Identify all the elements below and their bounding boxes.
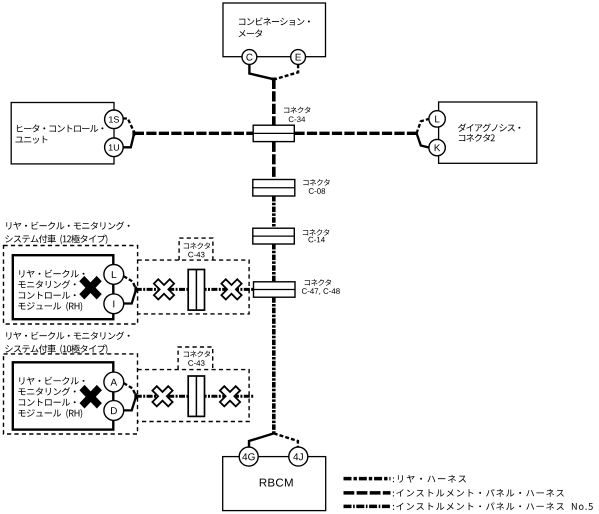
10-pole dashed enclosure xyxy=(4,354,138,434)
wire trunk C-47 to RBCM junction (rear harness) xyxy=(272,297,276,433)
12-pole system note line 1 xyxy=(6,221,129,229)
connector C-47 C-48 designator xyxy=(302,288,340,295)
combination meter box xyxy=(223,3,326,57)
module (12-pole) box xyxy=(13,255,114,319)
wire diagnosis pin K lead xyxy=(417,133,429,147)
node heater junction xyxy=(132,131,135,137)
twist mark upper left xyxy=(154,279,174,299)
wire RBCM pin 4G lead xyxy=(249,433,274,447)
node module1 junction xyxy=(134,287,137,293)
legend instrument panel harness sample xyxy=(344,491,391,495)
heater control unit box xyxy=(11,103,114,164)
legend instrument panel harness label xyxy=(393,489,564,497)
connector C-43 lower xyxy=(188,376,204,416)
connector C-43 lower label xyxy=(184,351,210,358)
wire heater pin 1U lead xyxy=(123,135,134,148)
wire heater pin 1S lead (dashed) xyxy=(123,119,134,132)
wire module pin A lead (dashed) xyxy=(124,383,136,395)
pin E (meter) xyxy=(291,50,306,65)
wire meter pin C lead xyxy=(249,64,271,78)
RBCM label xyxy=(260,478,293,486)
wire trunk junction to C-34 (instrument panel harness) xyxy=(272,79,276,125)
10-pole system note line 2 xyxy=(5,344,107,354)
cross mark in module (12-pole) xyxy=(79,276,101,300)
pin D (module 10-pole) xyxy=(104,401,124,421)
pin 1U (heater) xyxy=(105,138,124,157)
legend instrument panel harness No.5 label xyxy=(393,502,593,510)
cross mark in module (10-pole) xyxy=(79,385,101,409)
diagnosis connector 2 box xyxy=(439,102,537,163)
wire module (12-pole) to C-47 (rear harness) xyxy=(136,288,254,291)
connector C-43 lower designator xyxy=(188,360,204,366)
connector C-43 upper label box xyxy=(179,238,213,260)
pin C (meter) xyxy=(242,50,257,65)
legend rear harness sample xyxy=(344,477,391,481)
connector C-34 designator xyxy=(289,116,305,122)
legend instrument panel harness No.5 sample xyxy=(344,505,391,509)
pin L (diagnosis) xyxy=(429,111,445,127)
connector C-14 designator xyxy=(308,237,324,243)
connector C-08 designator xyxy=(309,188,325,194)
pin 4J (RBCM) xyxy=(289,447,308,466)
connector C-14 label xyxy=(303,229,329,236)
wire C-34 to diagnosis connector (instrument panel harness) xyxy=(294,132,416,135)
connector C-08 label xyxy=(303,179,329,186)
connector C-34 label xyxy=(284,107,310,114)
connector C-47 C-48 label xyxy=(305,279,331,286)
connector C-47 C-48 xyxy=(254,282,296,297)
connector C-43 upper xyxy=(188,270,204,311)
pin 1S (heater) xyxy=(105,110,124,129)
connector C-43 lower label box xyxy=(178,347,213,370)
twist mark upper right xyxy=(221,279,241,299)
combination meter label xyxy=(239,17,310,25)
connector C-34 xyxy=(253,125,294,141)
12-pole dashed band xyxy=(138,260,250,314)
module (12-pole) label xyxy=(19,270,84,278)
legend rear harness label xyxy=(393,475,466,483)
node meter junction xyxy=(272,78,277,81)
pin L (module 12-pole) xyxy=(104,265,124,285)
wire module pin D lead xyxy=(124,397,136,410)
pin I (module 12-pole) xyxy=(104,294,124,314)
10-pole system note line 1 xyxy=(6,331,129,339)
node module2 junction xyxy=(134,393,137,399)
12-pole system note line 2 xyxy=(5,235,107,245)
pin K (diagnosis) xyxy=(429,139,445,155)
wire module (10-pole) branch (rear harness) xyxy=(136,395,255,398)
heater control unit label xyxy=(17,124,103,132)
wire trunk C-08 to C-14 (rear harness) xyxy=(272,196,276,228)
connector C-43 upper label xyxy=(184,243,210,250)
wire module pin L lead (dashed) xyxy=(124,276,136,288)
twist mark lower left xyxy=(152,386,172,406)
connector C-08 xyxy=(253,180,295,197)
wire meter pin E lead (dashed) xyxy=(276,64,299,79)
wire heater to C-34 (instrument panel harness) xyxy=(134,132,253,135)
wire trunk C-34 to C-08 (instrument panel harness) xyxy=(272,142,276,180)
pin A (module 10-pole) xyxy=(104,372,124,392)
connector C-43 upper designator xyxy=(188,252,204,258)
module (10-pole) label xyxy=(19,377,84,385)
diagnosis connector 2 label xyxy=(458,123,520,131)
wire module pin I lead xyxy=(124,290,136,303)
wire trunk C-14 to C-47 (rear harness) xyxy=(272,244,276,282)
module (10-pole) box xyxy=(13,362,114,429)
connector C-14 xyxy=(253,228,294,244)
10-pole dashed band xyxy=(138,370,250,422)
RBCM box xyxy=(223,457,326,511)
twist mark lower right xyxy=(220,386,240,406)
wire diagnosis pin L lead (dashed) xyxy=(417,119,429,133)
wire RBCM pin 4J lead (dashed) xyxy=(274,433,298,447)
12-pole dashed enclosure xyxy=(4,246,138,325)
pin 4G (RBCM) xyxy=(239,447,258,466)
